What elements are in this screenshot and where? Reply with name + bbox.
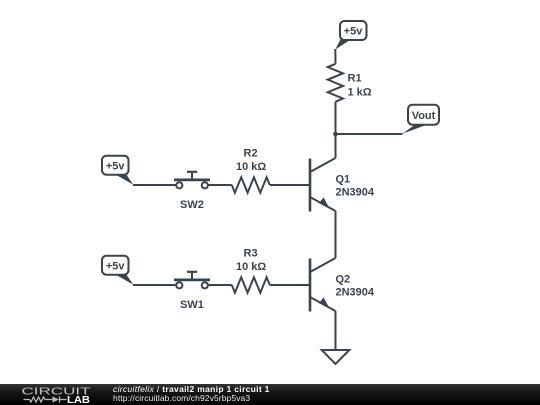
svg-text:+5v: +5v xyxy=(106,260,126,272)
svg-text:LAB: LAB xyxy=(67,394,90,405)
svg-text:Vout: Vout xyxy=(412,110,436,122)
wire SW2 to R2 xyxy=(208,184,232,186)
switch SW1 (pushbutton) xyxy=(174,272,210,289)
power flag +5v V1 (top) xyxy=(335,21,366,50)
wire node to Q1 collector xyxy=(335,134,337,158)
transistor Q1 xyxy=(310,158,336,212)
svg-text:R3: R3 xyxy=(244,248,258,260)
svg-text:2N3904: 2N3904 xyxy=(336,187,375,199)
svg-text:10 kΩ: 10 kΩ xyxy=(236,261,266,273)
wire V1 to R1 xyxy=(334,49,336,64)
footer title text xyxy=(113,384,270,394)
wire V2 to SW2 xyxy=(133,184,176,186)
svg-text:SW1: SW1 xyxy=(180,299,204,311)
ground xyxy=(322,350,350,364)
wire R3 to Q2 base xyxy=(270,284,309,286)
power flag +5v V2 (row 1 left) xyxy=(102,156,133,185)
power flag +5v V3 (row 2 left) xyxy=(102,256,133,285)
node junction xyxy=(333,132,338,137)
wire Q1 emitter to Q2 collector xyxy=(335,211,337,258)
resistor R3 xyxy=(232,277,270,292)
svg-text:Q2: Q2 xyxy=(336,273,351,285)
footer bar xyxy=(0,384,540,405)
svg-text:Q1: Q1 xyxy=(336,173,351,185)
switch SW2 (pushbutton) xyxy=(174,172,210,189)
wire R1 to node xyxy=(335,102,337,134)
wire V3 to SW1 xyxy=(133,284,176,286)
svg-text:2N3904: 2N3904 xyxy=(336,287,375,299)
net flag Vout xyxy=(402,105,439,134)
svg-text:+5v: +5v xyxy=(344,26,364,38)
svg-text:1 kΩ: 1 kΩ xyxy=(348,87,372,99)
resistor R1 xyxy=(328,64,343,102)
svg-text:R1: R1 xyxy=(348,73,362,85)
svg-text:10 kΩ: 10 kΩ xyxy=(236,161,266,173)
wire R2 to Q1 base xyxy=(270,184,309,186)
CircuitLab logo xyxy=(0,384,100,405)
wire SW1 to R3 xyxy=(208,284,232,286)
resistor R2 xyxy=(232,177,270,192)
wire Q2 emitter to ground xyxy=(335,311,337,350)
transistor Q2 xyxy=(310,258,336,312)
svg-text:+5v: +5v xyxy=(106,160,126,172)
svg-text:SW2: SW2 xyxy=(180,199,204,211)
footer url text xyxy=(113,393,250,403)
wire node to Vout xyxy=(336,133,403,135)
svg-text:R2: R2 xyxy=(244,148,258,160)
